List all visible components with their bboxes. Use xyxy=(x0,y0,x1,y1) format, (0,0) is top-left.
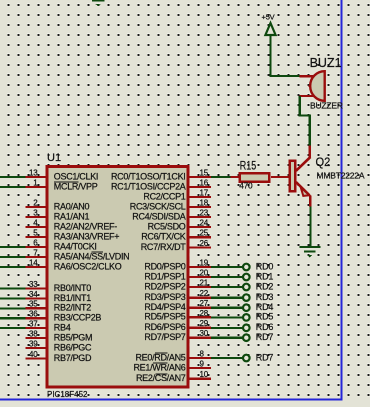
svg-text:RA3/AN3/VREF+: RA3/AN3/VREF+ xyxy=(54,231,119,241)
U1 pin 20 (RD1/PSP1) right stub xyxy=(189,268,212,278)
terminal RD4 (node RD4) xyxy=(243,302,273,312)
svg-text:RB4: RB4 xyxy=(54,322,71,332)
svg-text:38: 38 xyxy=(29,329,38,338)
U1 pin 15 (RC0/T1OSO/T1CKI) right stub xyxy=(189,168,212,178)
wire to U1 pin 6 xyxy=(0,246,26,248)
resistor R15 left lead xyxy=(230,176,239,178)
svg-text:RC7/RX/DT: RC7/RX/DT xyxy=(141,242,187,252)
U1 pin 24 (RC5/SDO) right stub xyxy=(189,218,212,228)
svg-text:RD7/PSP7: RD7/PSP7 xyxy=(144,332,185,342)
U1 pin 21 name xyxy=(144,281,185,291)
U1 pin 2 (RA0/AN0) left stub xyxy=(26,198,47,208)
U1 pin 7 (RA5/AN4/SS/LVDIN) left stub xyxy=(26,248,47,258)
svg-text:16: 16 xyxy=(200,178,209,187)
svg-text:RD3: RD3 xyxy=(256,292,274,302)
U1 pin 27 name xyxy=(144,302,185,312)
svg-text:RD7: RD7 xyxy=(256,332,274,342)
U1 pin 37 (RB4) left stub xyxy=(26,319,47,329)
svg-text:15: 15 xyxy=(200,168,209,177)
wire U1 pin 29 to terminal RD6 xyxy=(211,327,243,329)
U1 pin 40 (RB7/PGD) left stub xyxy=(26,350,47,360)
U1 pin 13 (OSC1/CLKI) left stub xyxy=(26,168,47,178)
svg-text:RC2/CCP1: RC2/CCP1 xyxy=(143,191,185,201)
U1 pin 30 name xyxy=(144,332,185,342)
svg-text:RE0/RD/AN5: RE0/RD/AN5 xyxy=(135,352,185,362)
wire buzzer to Q2 collector xyxy=(299,96,311,146)
svg-text:RD7: RD7 xyxy=(256,352,274,362)
svg-text:28: 28 xyxy=(200,309,209,318)
svg-text:RB0/INT0: RB0/INT0 xyxy=(54,283,91,293)
svg-text:19: 19 xyxy=(200,258,209,267)
U1 pin 9 name xyxy=(133,362,185,372)
terminal RD1 (node RD1) xyxy=(243,271,273,281)
svg-text:RD4: RD4 xyxy=(256,302,274,312)
svg-text:RC0/T1OSO/T1CKI: RC0/T1OSO/T1CKI xyxy=(111,171,186,181)
U1 pin 28 (RD5/PSP5) right stub xyxy=(189,309,212,319)
resistor R15 body xyxy=(240,173,270,182)
svg-text:RB3/CCP2B: RB3/CCP2B xyxy=(54,313,102,323)
svg-text:20: 20 xyxy=(200,268,209,277)
U1 pin 3 (RA1/AN1) left stub xyxy=(26,208,47,218)
U1 pin 29 name xyxy=(144,322,185,332)
U1 pin 36 (RB3/CCP2B) left stub xyxy=(26,310,47,320)
svg-text:22: 22 xyxy=(200,289,209,298)
svg-text:R15: R15 xyxy=(240,158,257,172)
svg-text:U1: U1 xyxy=(47,152,61,164)
wire to U1 pin 37 xyxy=(0,327,26,329)
svg-text:25: 25 xyxy=(200,229,209,238)
U1 pin 4 (RA2/AN2/VREF-) left stub xyxy=(26,218,47,228)
svg-text:RC6/TX/CK: RC6/TX/CK xyxy=(141,232,186,242)
svg-text:RA2/AN2/VREF-: RA2/AN2/VREF- xyxy=(54,221,117,231)
svg-text:RA5/AN4/SS/LVDIN: RA5/AN4/SS/LVDIN xyxy=(54,251,130,261)
svg-text:37: 37 xyxy=(29,319,38,328)
svg-text:13: 13 xyxy=(29,168,38,177)
U1 pin 19 name xyxy=(144,261,185,271)
U1 pin 36 name xyxy=(54,313,102,323)
svg-text:40: 40 xyxy=(29,350,38,359)
U1 pin 26 name xyxy=(141,242,187,252)
svg-text:RD2/PSP2: RD2/PSP2 xyxy=(144,281,185,291)
U1 pin 29 (RD6/PSP6) right stub xyxy=(189,319,212,329)
buzzer BUZ1 bottom pin stub xyxy=(300,95,314,97)
U1 pin 38 (RB5/PGM) left stub xyxy=(26,329,47,339)
U1 pin 6 name xyxy=(54,241,97,251)
U1 pin 5 (RA3/AN3/VREF+) left stub xyxy=(26,228,47,238)
U1 pin 27 (RD4/PSP4) right stub xyxy=(189,299,212,309)
U1 pin 3 name xyxy=(54,211,90,221)
U1 pin 28 name xyxy=(144,312,185,322)
svg-text:26: 26 xyxy=(200,239,209,248)
ground (bottom) xyxy=(299,246,320,258)
U1 pin 9 (RE1/WR/AN6) right stub xyxy=(189,359,212,369)
wire +5V down and right to buzzer xyxy=(270,36,300,78)
terminal RD6 (node RD6) xyxy=(243,322,273,332)
svg-text:MMBT2222A: MMBT2222A xyxy=(317,171,365,181)
svg-text:18: 18 xyxy=(200,198,209,207)
svg-text:BUZZER: BUZZER xyxy=(310,101,343,111)
wire U1 pin 8 to terminal RD7 xyxy=(211,357,243,359)
wire to U1 pin 35 xyxy=(0,307,26,309)
svg-text:30: 30 xyxy=(200,329,209,338)
U1 pin 7 name xyxy=(54,251,130,261)
U1 pin 25 (RC6/TX/CK) right stub xyxy=(189,229,212,239)
terminal RD2 (node RD2) xyxy=(243,281,273,291)
wire to U1 pin 14 xyxy=(0,266,26,268)
U1 pin 16 name xyxy=(111,181,186,191)
svg-text:BUZ1: BUZ1 xyxy=(310,56,342,70)
svg-text:34: 34 xyxy=(29,290,38,299)
svg-text:RD5: RD5 xyxy=(256,312,274,322)
U1 pin 20 name xyxy=(144,271,185,281)
U1 pin 18 name xyxy=(130,201,186,211)
svg-text:39: 39 xyxy=(29,339,38,348)
svg-text:RC5/SDO: RC5/SDO xyxy=(148,221,186,231)
svg-text:470: 470 xyxy=(239,181,253,191)
U1 pin 39 (RB6/PGC) left stub xyxy=(26,339,47,349)
wire U1 pin 15 to R15 xyxy=(211,176,230,178)
wire to U1 pin 34 xyxy=(0,298,26,300)
svg-text:17: 17 xyxy=(200,188,209,197)
svg-text:RD3/PSP3: RD3/PSP3 xyxy=(144,292,185,302)
svg-text:10: 10 xyxy=(200,370,209,379)
U1 pin 1 name xyxy=(54,181,98,191)
svg-text:RB2/INT2: RB2/INT2 xyxy=(54,303,91,313)
wire U1 pin 20 to terminal RD1 xyxy=(211,276,243,278)
svg-text:23: 23 xyxy=(200,208,209,217)
U1 pin 39 name xyxy=(54,342,92,352)
svg-text:RA4/T0CKI: RA4/T0CKI xyxy=(54,241,97,251)
U1 pin 8 (RE0/RD/AN5) right stub xyxy=(189,349,212,359)
U1 pin 34 (RB1/INT1) left stub xyxy=(26,290,47,300)
U1 pin 19 (RD0/PSP0) right stub xyxy=(189,258,212,268)
terminal RD7 (node RD7) xyxy=(243,332,273,342)
U1 pin 10 (RE2/CS/AN7) right stub xyxy=(189,370,212,380)
U1 pin 24 name xyxy=(148,221,186,231)
svg-text:RD4/PSP4: RD4/PSP4 xyxy=(144,302,185,312)
svg-text:36: 36 xyxy=(29,310,38,319)
svg-text:RB7/PGD: RB7/PGD xyxy=(54,353,92,363)
buzzer BUZ1 body xyxy=(308,71,324,101)
U1 pin 17 (RC2/CCP1) right stub xyxy=(189,188,212,198)
svg-text:MCLR/VPP: MCLR/VPP xyxy=(54,181,98,191)
svg-text:14: 14 xyxy=(29,258,38,267)
U1 pin 13 name xyxy=(54,171,98,181)
U1 pin 14 name xyxy=(54,261,122,271)
wire U1 pin 21 to terminal RD2 xyxy=(211,286,243,288)
U1 pin 37 name xyxy=(54,322,71,332)
U1 PIC18F452 body xyxy=(47,167,188,387)
resistor R15 right lead / wire to Q2 base xyxy=(271,176,289,178)
U1 pin 10 name xyxy=(136,373,186,383)
svg-text:RA0/AN0: RA0/AN0 xyxy=(54,201,90,211)
U1 pin 38 name xyxy=(54,332,92,342)
transistor Q2 base bar xyxy=(290,161,295,192)
svg-text:RC3/SCK/SCL: RC3/SCK/SCL xyxy=(130,201,186,211)
wire to U1 pin 1 xyxy=(0,186,26,188)
svg-text:35: 35 xyxy=(29,300,38,309)
U1 pin 23 (RC4/SDI/SDA) right stub xyxy=(189,208,212,218)
wire to U1 pin 33 xyxy=(0,288,26,290)
U1 pin 18 (RC3/SCK/SCL) right stub xyxy=(189,198,212,208)
U1 pin 2 name xyxy=(54,201,90,211)
svg-text:RD6/PSP6: RD6/PSP6 xyxy=(144,322,185,332)
svg-text:RC1/T1OSI/CCP2A: RC1/T1OSI/CCP2A xyxy=(111,181,186,191)
svg-text:RD0: RD0 xyxy=(256,261,274,271)
U1 pin 15 name xyxy=(111,171,186,181)
wire to U1 pin 36 xyxy=(0,317,26,319)
svg-text:33: 33 xyxy=(29,280,38,289)
buzzer BUZ1 top pin stub xyxy=(300,75,314,77)
U1 pin 16 (RC1/T1OSI/CCP2A) right stub xyxy=(189,178,212,188)
svg-text:RB5/PGM: RB5/PGM xyxy=(54,332,92,342)
U1 pin 1 (MCLR/VPP) left stub xyxy=(26,178,47,188)
terminal RD7 (node RD7) xyxy=(243,352,273,362)
U1 pin 30 (RD7/PSP7) right stub xyxy=(189,329,212,339)
svg-text:RD2: RD2 xyxy=(256,281,274,291)
U1 pin 25 name xyxy=(141,232,186,242)
svg-text:21: 21 xyxy=(200,278,209,287)
U1 pin 33 name xyxy=(54,283,91,293)
U1 pin 21 (RD2/PSP2) right stub xyxy=(189,278,212,288)
terminal RD5 (node RD5) xyxy=(243,312,273,322)
ground (top, partial) xyxy=(92,0,105,6)
wire U1 pin 30 to terminal RD7 xyxy=(211,337,243,339)
U1 pin 17 name xyxy=(143,191,185,201)
svg-text:RE2/CS/AN7: RE2/CS/AN7 xyxy=(136,373,186,383)
U1 pin 34 name xyxy=(54,293,91,303)
svg-text:OSC1/CLKI: OSC1/CLKI xyxy=(54,171,98,181)
terminal RD0 (node RD0) xyxy=(243,261,273,271)
svg-text:RB6/PGC: RB6/PGC xyxy=(54,342,92,352)
wire U1 pin 22 to terminal RD3 xyxy=(211,297,243,299)
transistor Q2 collector lead xyxy=(296,146,311,171)
wire Q2 emitter to ground xyxy=(309,207,311,247)
svg-text:29: 29 xyxy=(200,319,209,328)
svg-text:RA6/OSC2/CLKO: RA6/OSC2/CLKO xyxy=(54,261,122,271)
power +5V symbol xyxy=(262,12,276,35)
terminal RD3 (node RD3) xyxy=(243,292,273,302)
U1 pin 35 name xyxy=(54,303,91,313)
svg-text:RE1/WR/AN6: RE1/WR/AN6 xyxy=(133,362,185,372)
U1 pin 22 name xyxy=(144,292,185,302)
wire U1 pin 19 to terminal RD0 xyxy=(211,266,243,268)
U1 pin 14 (RA6/OSC2/CLKO) left stub xyxy=(26,258,47,268)
U1 pin 40 name xyxy=(54,353,92,363)
svg-text:RD6: RD6 xyxy=(256,322,274,332)
wire to U1 pin 7 xyxy=(0,256,26,258)
svg-text:RA1/AN1: RA1/AN1 xyxy=(54,211,90,221)
U1 pin 5 name xyxy=(54,231,119,241)
U1 pin 35 (RB2/INT2) left stub xyxy=(26,300,47,310)
U1 pin 26 (RC7/RX/DT) right stub xyxy=(189,239,212,249)
svg-text:RD1: RD1 xyxy=(256,271,274,281)
svg-text:27: 27 xyxy=(200,299,209,308)
U1 pin 22 (RD3/PSP3) right stub xyxy=(189,289,212,299)
wire to U1 pin 13 xyxy=(0,176,26,178)
svg-text:RC4/SDI/SDA: RC4/SDI/SDA xyxy=(132,211,186,221)
U1 pin 23 name xyxy=(132,211,186,221)
svg-text:RD0/PSP0: RD0/PSP0 xyxy=(144,261,185,271)
svg-text:Q2: Q2 xyxy=(316,155,331,169)
U1 pin 33 (RB0/INT0) left stub xyxy=(26,280,47,290)
svg-text:24: 24 xyxy=(200,218,209,227)
U1 pin 8 name xyxy=(135,352,185,362)
svg-text:RD1/PSP1: RD1/PSP1 xyxy=(144,271,185,281)
transistor Q2 emitter lead with arrow xyxy=(296,182,312,207)
U1 pin 4 name xyxy=(54,221,117,231)
svg-text:RB1/INT1: RB1/INT1 xyxy=(54,293,91,303)
svg-text:PIC18F452: PIC18F452 xyxy=(47,390,88,399)
wire U1 pin 27 to terminal RD4 xyxy=(211,307,243,309)
wire U1 pin 28 to terminal RD5 xyxy=(211,316,243,318)
svg-text:+5V: +5V xyxy=(262,12,275,21)
svg-text:RD5/PSP5: RD5/PSP5 xyxy=(144,312,185,322)
U1 pin 6 (RA4/T0CKI) left stub xyxy=(26,238,47,248)
